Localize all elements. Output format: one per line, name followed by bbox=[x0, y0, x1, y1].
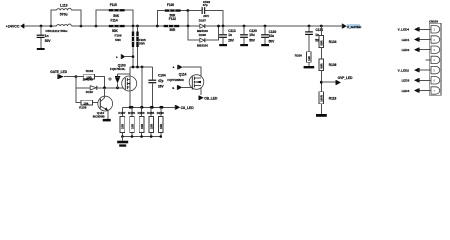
svg-text:LED3: LED3 bbox=[402, 79, 410, 83]
port OVP_LED bbox=[321, 76, 353, 85]
capacitor C522 47p 2KV bbox=[202, 0, 211, 18]
svg-text:15R: 15R bbox=[150, 124, 154, 129]
svg-text:50R: 50R bbox=[139, 42, 145, 46]
svg-text:1n: 1n bbox=[228, 33, 232, 37]
svg-text:LED4: LED4 bbox=[402, 89, 410, 93]
svg-text:50V: 50V bbox=[269, 39, 276, 43]
diode D110 bbox=[76, 77, 125, 95]
svg-text:OVP_LED: OVP_LED bbox=[338, 76, 354, 80]
resistor R134 bbox=[319, 26, 337, 48]
svg-text:F130: F130 bbox=[167, 3, 174, 7]
node dot OVP tap bbox=[320, 81, 323, 84]
svg-text:15R: 15R bbox=[130, 124, 134, 129]
svg-text:15R: 15R bbox=[121, 124, 125, 129]
capacitor C104 47p 26V bbox=[148, 67, 165, 107]
wire drain/gate line y67 bbox=[130, 66, 152, 68]
wire main rail segment 1 bbox=[24, 25, 341, 27]
svg-text:CB_LED: CB_LED bbox=[204, 96, 218, 100]
wire x142 down bbox=[141, 67, 143, 107]
port CS_LED bbox=[175, 105, 194, 110]
svg-text:10u: 10u bbox=[269, 34, 275, 38]
pin 4 (stub) bbox=[426, 56, 440, 63]
node dot x133 bbox=[132, 25, 135, 28]
node dot L right bbox=[80, 25, 83, 28]
svg-text:R134: R134 bbox=[329, 40, 337, 44]
node dot x117.5 gate line bbox=[116, 86, 119, 89]
pin 1 bbox=[398, 26, 440, 33]
resistor R135 bbox=[147, 107, 154, 138]
svg-text:100R: 100R bbox=[320, 95, 324, 102]
svg-text:R179: R179 bbox=[128, 111, 135, 115]
svg-text:47p: 47p bbox=[158, 79, 164, 83]
zener gate protection bbox=[115, 74, 130, 88]
svg-text:C5011212 550u: C5011212 550u bbox=[45, 29, 67, 33]
pin 7 bbox=[402, 87, 440, 94]
svg-text:47p: 47p bbox=[203, 3, 208, 7]
svg-text:V_LED4: V_LED4 bbox=[398, 28, 410, 32]
svg-text:1N4148: 1N4148 bbox=[83, 78, 94, 82]
svg-text:F106: F106 bbox=[115, 34, 122, 38]
capacitor C130 10u 50V bbox=[261, 26, 276, 46]
resistor F106 50R (vertical) bbox=[115, 26, 135, 67]
svg-text:50R: 50R bbox=[320, 40, 324, 45]
node dot x96 bbox=[95, 25, 98, 28]
svg-text:50K: 50K bbox=[113, 14, 120, 18]
svg-text:50V: 50V bbox=[249, 38, 256, 42]
transistor Q114 FQPF9N50C bbox=[167, 73, 203, 90]
node dot x321 bbox=[320, 25, 323, 28]
svg-text:10u: 10u bbox=[249, 33, 255, 37]
svg-text:GATE_LED: GATE_LED bbox=[50, 70, 67, 74]
resistor F114 50K (series on rail) bbox=[109, 19, 125, 33]
svg-text:R135: R135 bbox=[147, 111, 154, 115]
svg-text:LED1: LED1 bbox=[402, 38, 410, 42]
port +24VCC bbox=[6, 24, 25, 29]
node dot x244 bbox=[243, 25, 246, 28]
port V_GATEH bbox=[342, 24, 362, 29]
port a (gate drive) bbox=[116, 54, 134, 59]
svg-text:1n: 1n bbox=[315, 33, 319, 37]
pin 6 bbox=[402, 77, 440, 84]
node dot x188 on rail bbox=[187, 25, 190, 28]
svg-text:LED2: LED2 bbox=[402, 48, 410, 52]
svg-text:D107: D107 bbox=[199, 19, 207, 23]
node dot L left bbox=[50, 25, 53, 28]
svg-text:26V: 26V bbox=[228, 38, 235, 42]
svg-text:Q114: Q114 bbox=[179, 73, 187, 77]
svg-text:L113: L113 bbox=[60, 3, 68, 7]
svg-text:570u: 570u bbox=[60, 13, 68, 17]
svg-text:CS_LED: CS_LED bbox=[181, 106, 195, 110]
svg-text:1n: 1n bbox=[45, 34, 49, 38]
capacitor C113 1n 26V bbox=[219, 26, 236, 46]
node dots y67 bbox=[132, 66, 135, 69]
transistor Q110 BC850B bbox=[76, 77, 113, 122]
capacitor C129 10u 50V bbox=[240, 26, 257, 46]
resistor F105 50R (vertical) bbox=[136, 26, 146, 67]
resistor R187 bbox=[118, 107, 125, 138]
svg-text:+24VCC: +24VCC bbox=[6, 24, 20, 28]
wire bypass mid down bbox=[187, 11, 189, 27]
svg-text:R246: R246 bbox=[157, 111, 164, 115]
resistor F130 50R bbox=[165, 3, 181, 17]
resistor R136 bbox=[319, 48, 337, 92]
top rail bbox=[122, 106, 174, 108]
svg-text:R102: R102 bbox=[86, 69, 94, 73]
svg-text:50V: 50V bbox=[45, 39, 52, 43]
resistor F115 50K (top bypass) bbox=[96, 3, 133, 26]
svg-text:F132: F132 bbox=[169, 17, 176, 21]
port GATE_LED bbox=[50, 70, 76, 79]
resistor R100 (vertical box) bbox=[295, 52, 314, 69]
svg-text:50R: 50R bbox=[320, 63, 324, 68]
tiny circle marker bbox=[109, 78, 111, 80]
pin 3 bbox=[402, 46, 440, 53]
svg-text:G: G bbox=[172, 86, 174, 90]
node dot gate led bbox=[75, 75, 78, 78]
svg-text:26V: 26V bbox=[158, 84, 165, 88]
diode D107 BB5100 bbox=[197, 19, 208, 33]
svg-text:C104: C104 bbox=[158, 73, 166, 77]
svg-text:2KV: 2KV bbox=[203, 14, 209, 18]
bank dots top bbox=[129, 106, 132, 109]
node dot x265 bbox=[264, 25, 267, 28]
inductor L113 570u (top bypass) bbox=[51, 3, 81, 26]
resistor R102 10R bbox=[76, 69, 105, 88]
capacitor C150 1n 50V bbox=[305, 26, 323, 52]
svg-text:R136: R136 bbox=[329, 63, 337, 67]
svg-text:D106: D106 bbox=[199, 33, 207, 37]
svg-text:R153: R153 bbox=[138, 111, 145, 115]
svg-text:FQD7N10L: FQD7N10L bbox=[110, 67, 126, 71]
CONNECTOR CN103 bbox=[429, 20, 441, 96]
svg-text:50R: 50R bbox=[170, 28, 177, 32]
svg-text:F114: F114 bbox=[111, 19, 118, 23]
svg-text:BB5100: BB5100 bbox=[197, 43, 208, 47]
svg-text:50K: 50K bbox=[112, 29, 119, 33]
bottom rail bbox=[122, 136, 160, 138]
svg-text:F115: F115 bbox=[110, 3, 117, 7]
node dot bypass mid bbox=[186, 9, 189, 12]
svg-text:50R: 50R bbox=[115, 38, 121, 42]
resistor R153 bbox=[138, 107, 145, 138]
svg-text:FQPF9N50C: FQPF9N50C bbox=[167, 78, 185, 82]
svg-text:C150: C150 bbox=[316, 28, 324, 32]
svg-text:R100: R100 bbox=[295, 54, 303, 58]
svg-text:V_LED2: V_LED2 bbox=[398, 68, 410, 72]
svg-text:R118: R118 bbox=[329, 97, 337, 101]
svg-text:R187: R187 bbox=[118, 111, 125, 115]
node dot x309 bbox=[308, 25, 311, 28]
node dot x41 bbox=[40, 25, 43, 28]
resistor R246 bbox=[157, 107, 164, 138]
node dot x137.5 bbox=[136, 25, 139, 28]
port G (gate) bbox=[172, 85, 192, 90]
pin 5 bbox=[398, 66, 440, 73]
node dot x218.5 bbox=[217, 25, 220, 28]
svg-text:BC850B: BC850B bbox=[93, 115, 106, 119]
node dot x104.5 gate line bbox=[103, 86, 106, 89]
capacitor 1n 50V bbox=[37, 26, 52, 48]
bank ground bbox=[117, 137, 128, 147]
resistor F132 50R (series on rail) bbox=[164, 17, 180, 32]
transistor Q103 FQD7N10L bbox=[110, 64, 137, 108]
resistor R179 bbox=[128, 107, 135, 138]
svg-text:15R: 15R bbox=[140, 124, 144, 129]
ground bbox=[37, 48, 45, 50]
svg-text:1k0: 1k0 bbox=[307, 56, 311, 61]
wire bypass top bbox=[157, 11, 223, 27]
port 9 (drain) bbox=[173, 65, 201, 95]
node dot x223 bbox=[222, 25, 225, 28]
svg-text:15R: 15R bbox=[159, 124, 163, 129]
svg-text:D110: D110 bbox=[86, 90, 94, 94]
inductor C5011212 550u (on rail) bbox=[45, 24, 71, 33]
node dot x157 bbox=[156, 25, 159, 28]
svg-text:V_GATEH: V_GATEH bbox=[347, 25, 362, 29]
resistor R118 bbox=[316, 92, 336, 117]
port CB_LED bbox=[199, 96, 219, 101]
pin 2 bbox=[402, 36, 440, 43]
diode D106 BB5100 (lower branch) bbox=[188, 26, 219, 47]
svg-text:R138: R138 bbox=[79, 106, 87, 110]
